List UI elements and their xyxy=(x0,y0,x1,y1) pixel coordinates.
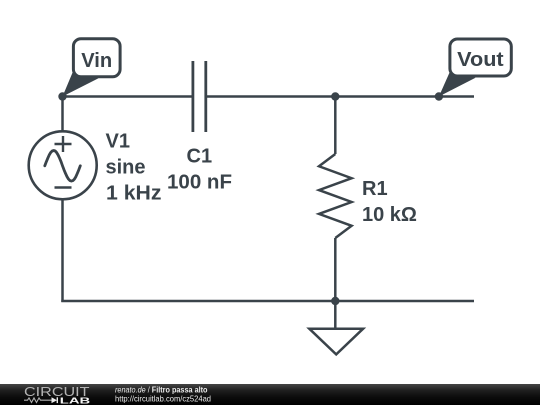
ground xyxy=(309,329,363,355)
Vin flag box xyxy=(73,39,120,77)
wire V1 top: node to source xyxy=(61,97,64,131)
node dot Vin xyxy=(58,92,66,100)
svg-text:LAB: LAB xyxy=(60,395,91,405)
logo diode xyxy=(52,397,58,403)
svg-text:C1: C1 xyxy=(187,146,213,168)
svg-text:Vout: Vout xyxy=(457,48,504,71)
V1 sine waveform xyxy=(45,151,81,182)
svg-text:100 nF: 100 nF xyxy=(167,172,232,194)
svg-text:renato.de / Filtro passa alto: renato.de / Filtro passa alto xyxy=(115,386,208,395)
Vin flag tail xyxy=(63,72,99,97)
svg-text:V1: V1 xyxy=(106,131,130,153)
svg-text:http://circuitlab.com/cz524ad: http://circuitlab.com/cz524ad xyxy=(115,395,211,404)
svg-text:Vin: Vin xyxy=(81,49,112,72)
wire bottom rail xyxy=(61,300,474,303)
wire R1 bottom: resistor to bottom rail xyxy=(334,238,337,301)
V1 circle body xyxy=(29,131,97,199)
footer bar xyxy=(0,384,540,405)
wire top right: C1 right plate to Vout stub end xyxy=(206,95,474,98)
V1 plus sign xyxy=(55,136,72,152)
node dot Vout xyxy=(435,92,443,100)
node dot R1 top junction xyxy=(331,92,339,100)
logo resistor squiggle xyxy=(24,398,52,403)
wire ground: junction to ground symbol xyxy=(334,301,337,329)
voltage source V1 (sine) xyxy=(29,131,97,199)
capacitor C1 plates xyxy=(193,61,206,132)
svg-text:1 kHz: 1 kHz xyxy=(106,183,162,205)
svg-text:10 kΩ: 10 kΩ xyxy=(362,204,417,226)
V1 minus sign xyxy=(55,186,72,188)
Vout flag tail xyxy=(439,72,476,97)
node dot ground junction xyxy=(331,297,339,305)
Vout flag box xyxy=(450,39,511,76)
resistor R1 zigzag xyxy=(319,154,352,238)
svg-text:sine: sine xyxy=(106,157,146,179)
wire top left: Vin node to C1 left plate xyxy=(63,95,193,98)
svg-text:R1: R1 xyxy=(362,178,388,200)
wire V1 bottom: source to bottom rail xyxy=(61,200,64,302)
wire R1 top: junction to resistor xyxy=(334,97,337,155)
